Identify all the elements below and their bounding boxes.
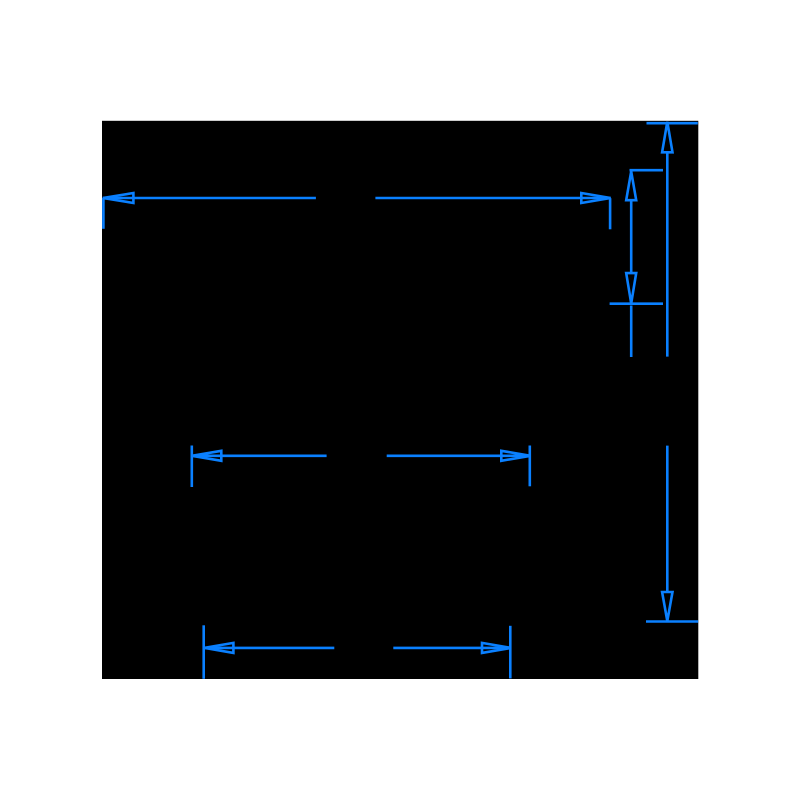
dimension D3 line left segment [204,647,334,650]
dimension D3 arrowhead right [482,643,511,653]
dimension D2 line right segment [387,454,531,457]
dimension D2 arrowhead left [192,451,221,461]
dimension D1 (top width) extension line left [102,198,105,229]
dimension D4 leader overrun below [630,306,633,358]
dimension D5 arrowhead down [662,592,672,621]
dimension D1 arrowhead left [103,193,134,203]
dimension D1 arrowhead right [581,193,610,203]
dimension D2 line left segment [192,454,327,457]
dimension D2 arrowhead right [501,451,530,461]
dimension D3 extension line right [509,626,512,679]
dimension D2 (middle width) extension line left [191,446,194,488]
dimension D3 (bottom width) extension line left [202,625,205,679]
dimension D5 (outer right height) extension tick top [647,122,698,125]
dimension D4 (inner right height) extension tick top [630,169,664,172]
dimension D5 line lower segment [666,446,669,592]
dimension D1 extension line right [609,198,612,229]
dimension D5 line upper segment [666,152,669,356]
dimension D3 line right segment [393,647,511,650]
dimension D4 extension tick bottom [610,302,663,305]
dimension D4 arrowhead down [626,273,636,303]
drawing area (black filled rectangle) [102,121,698,679]
dimension D3 arrowhead left [204,643,233,653]
dimension D5 arrowhead up [662,122,672,153]
dimension D4 line segment [630,200,633,273]
dimension D1 line right segment [375,197,610,200]
dimension D5 extension tick bottom [646,620,698,623]
dimension D2 extension line right [528,446,531,487]
dimension D4 arrowhead up [626,172,636,201]
dimension D1 line left segment [103,197,316,200]
